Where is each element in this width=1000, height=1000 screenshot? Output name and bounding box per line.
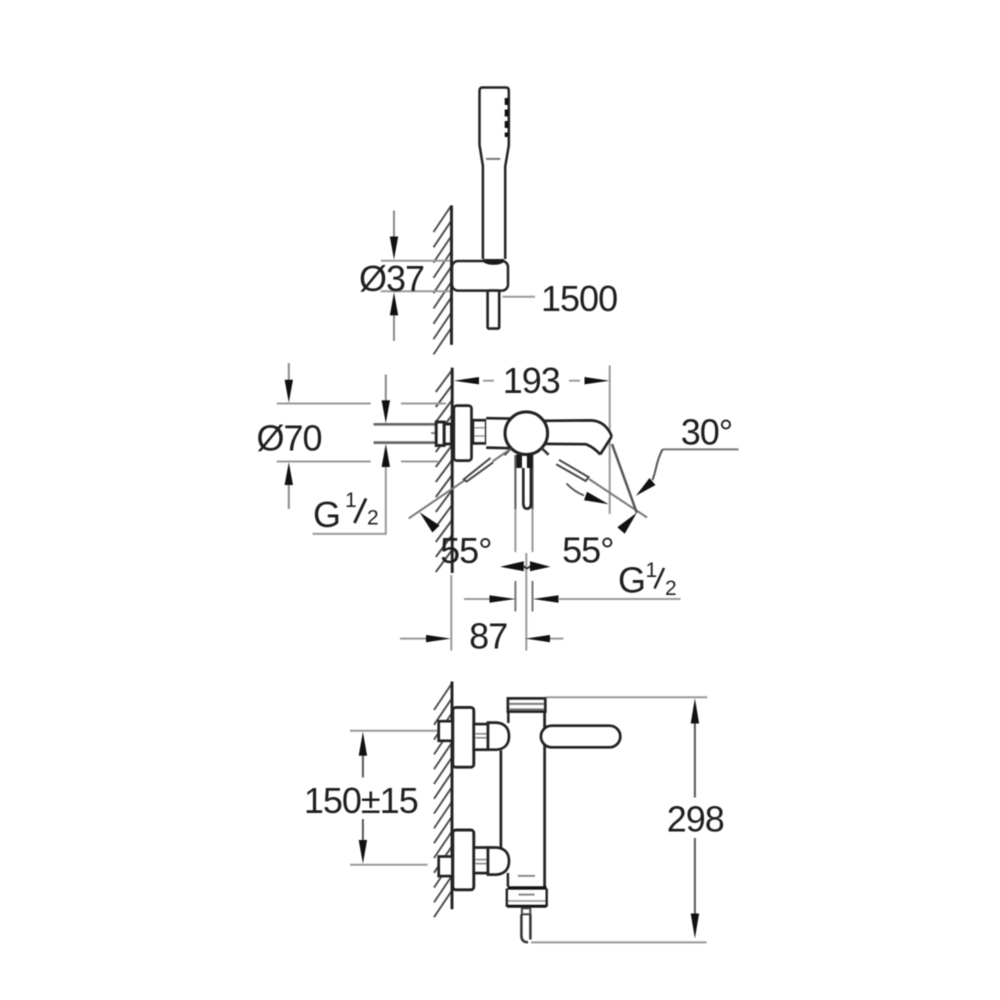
dimension 87 (450, 575, 452, 651)
dimension Ø70 (288, 363, 290, 380)
supply pipe (G 1/2) (374, 423, 437, 426)
dimension 193 (454, 377, 479, 384)
mixer hex nut (side view) (473, 420, 486, 443)
shower spray face dashes (505, 98, 509, 137)
svg-text:87: 87 (469, 616, 507, 657)
G 1/2 left leader (385, 467, 387, 534)
body sides (front view) (543, 712, 546, 887)
spout (side view) (543, 420, 612, 454)
spout pill (front view) (541, 726, 620, 748)
svg-text:Ø37: Ø37 (359, 258, 424, 299)
mixer flange (side view) (454, 406, 472, 461)
lever extension lines below (514, 509, 516, 552)
svg-text:1500: 1500 (541, 278, 617, 319)
wall (side view) line (451, 368, 454, 573)
left ghost lever (464, 458, 493, 482)
body cap (front view) (508, 698, 545, 711)
hose connection tube (520, 914, 523, 936)
dimension 150±15 (350, 730, 438, 732)
right 55 deg swing line (589, 479, 647, 518)
cartridge knob circle (505, 412, 548, 455)
svg-text:298: 298 (667, 799, 724, 840)
svg-text:193: 193 (503, 360, 560, 401)
svg-text:55°: 55° (562, 530, 613, 571)
right swing arc and arrowheads (567, 484, 585, 496)
lever swing stubs at knob (504, 448, 511, 455)
shower hose stub (488, 291, 500, 329)
svg-text:2: 2 (665, 577, 677, 600)
svg-text:30°: 30° (681, 412, 732, 453)
dimension Ø37 arrows (393, 211, 395, 239)
svg-text:1: 1 (345, 489, 357, 512)
svg-text:55°: 55° (440, 530, 491, 571)
30 deg spout face line (612, 444, 637, 513)
body neck (507, 712, 510, 723)
swing arc double arrow (bowtie) (500, 561, 524, 571)
svg-text:150±15: 150±15 (304, 780, 418, 821)
svg-text:G: G (313, 494, 340, 535)
left swing arrowhead (420, 512, 440, 532)
wall (top view) hatching (434, 206, 452, 354)
193 right extension line (609, 366, 611, 515)
wall (front view) line (451, 682, 454, 910)
wall (front view) hatching (434, 684, 452, 917)
pipe thread dimension arrows (385, 375, 387, 401)
svg-text:Ø70: Ø70 (256, 418, 321, 459)
svg-text:1: 1 (646, 559, 658, 582)
left 55 deg swing line (409, 450, 510, 519)
G 1/2 right dimension (514, 581, 516, 612)
svg-text:G: G (618, 560, 645, 601)
leader line to 1500 (502, 296, 535, 298)
bottom S-union pipe (439, 857, 453, 877)
dimension Ø37 extension lines (381, 260, 450, 262)
body below bottom union (507, 873, 510, 887)
shower holder bar (452, 261, 508, 291)
top S-union pipe (439, 721, 453, 741)
holder opening (dark ellipse) (483, 256, 504, 265)
aerator dark band (508, 886, 547, 890)
mixer body (side view) (486, 418, 526, 448)
bottom union flange (453, 830, 474, 890)
shower head inner line (486, 158, 500, 160)
lever (vertical position) (514, 455, 516, 509)
bottom union ball joint (488, 848, 509, 875)
top union nut (474, 724, 488, 750)
svg-text:2: 2 (367, 507, 379, 530)
top union ball joint (488, 723, 509, 750)
aerator housing (507, 890, 547, 908)
dimension 298 (546, 696, 707, 698)
hose connector stem (522, 908, 530, 914)
top union flange (453, 707, 474, 767)
wall S-union nuts (side view) (436, 422, 444, 446)
hand shower body (480, 88, 509, 260)
right ghost lever (556, 460, 588, 481)
bottom union nut (474, 848, 488, 874)
wall (side view) hatching (436, 369, 453, 572)
30 deg leader (663, 448, 739, 450)
wall (top view) line (450, 205, 453, 345)
